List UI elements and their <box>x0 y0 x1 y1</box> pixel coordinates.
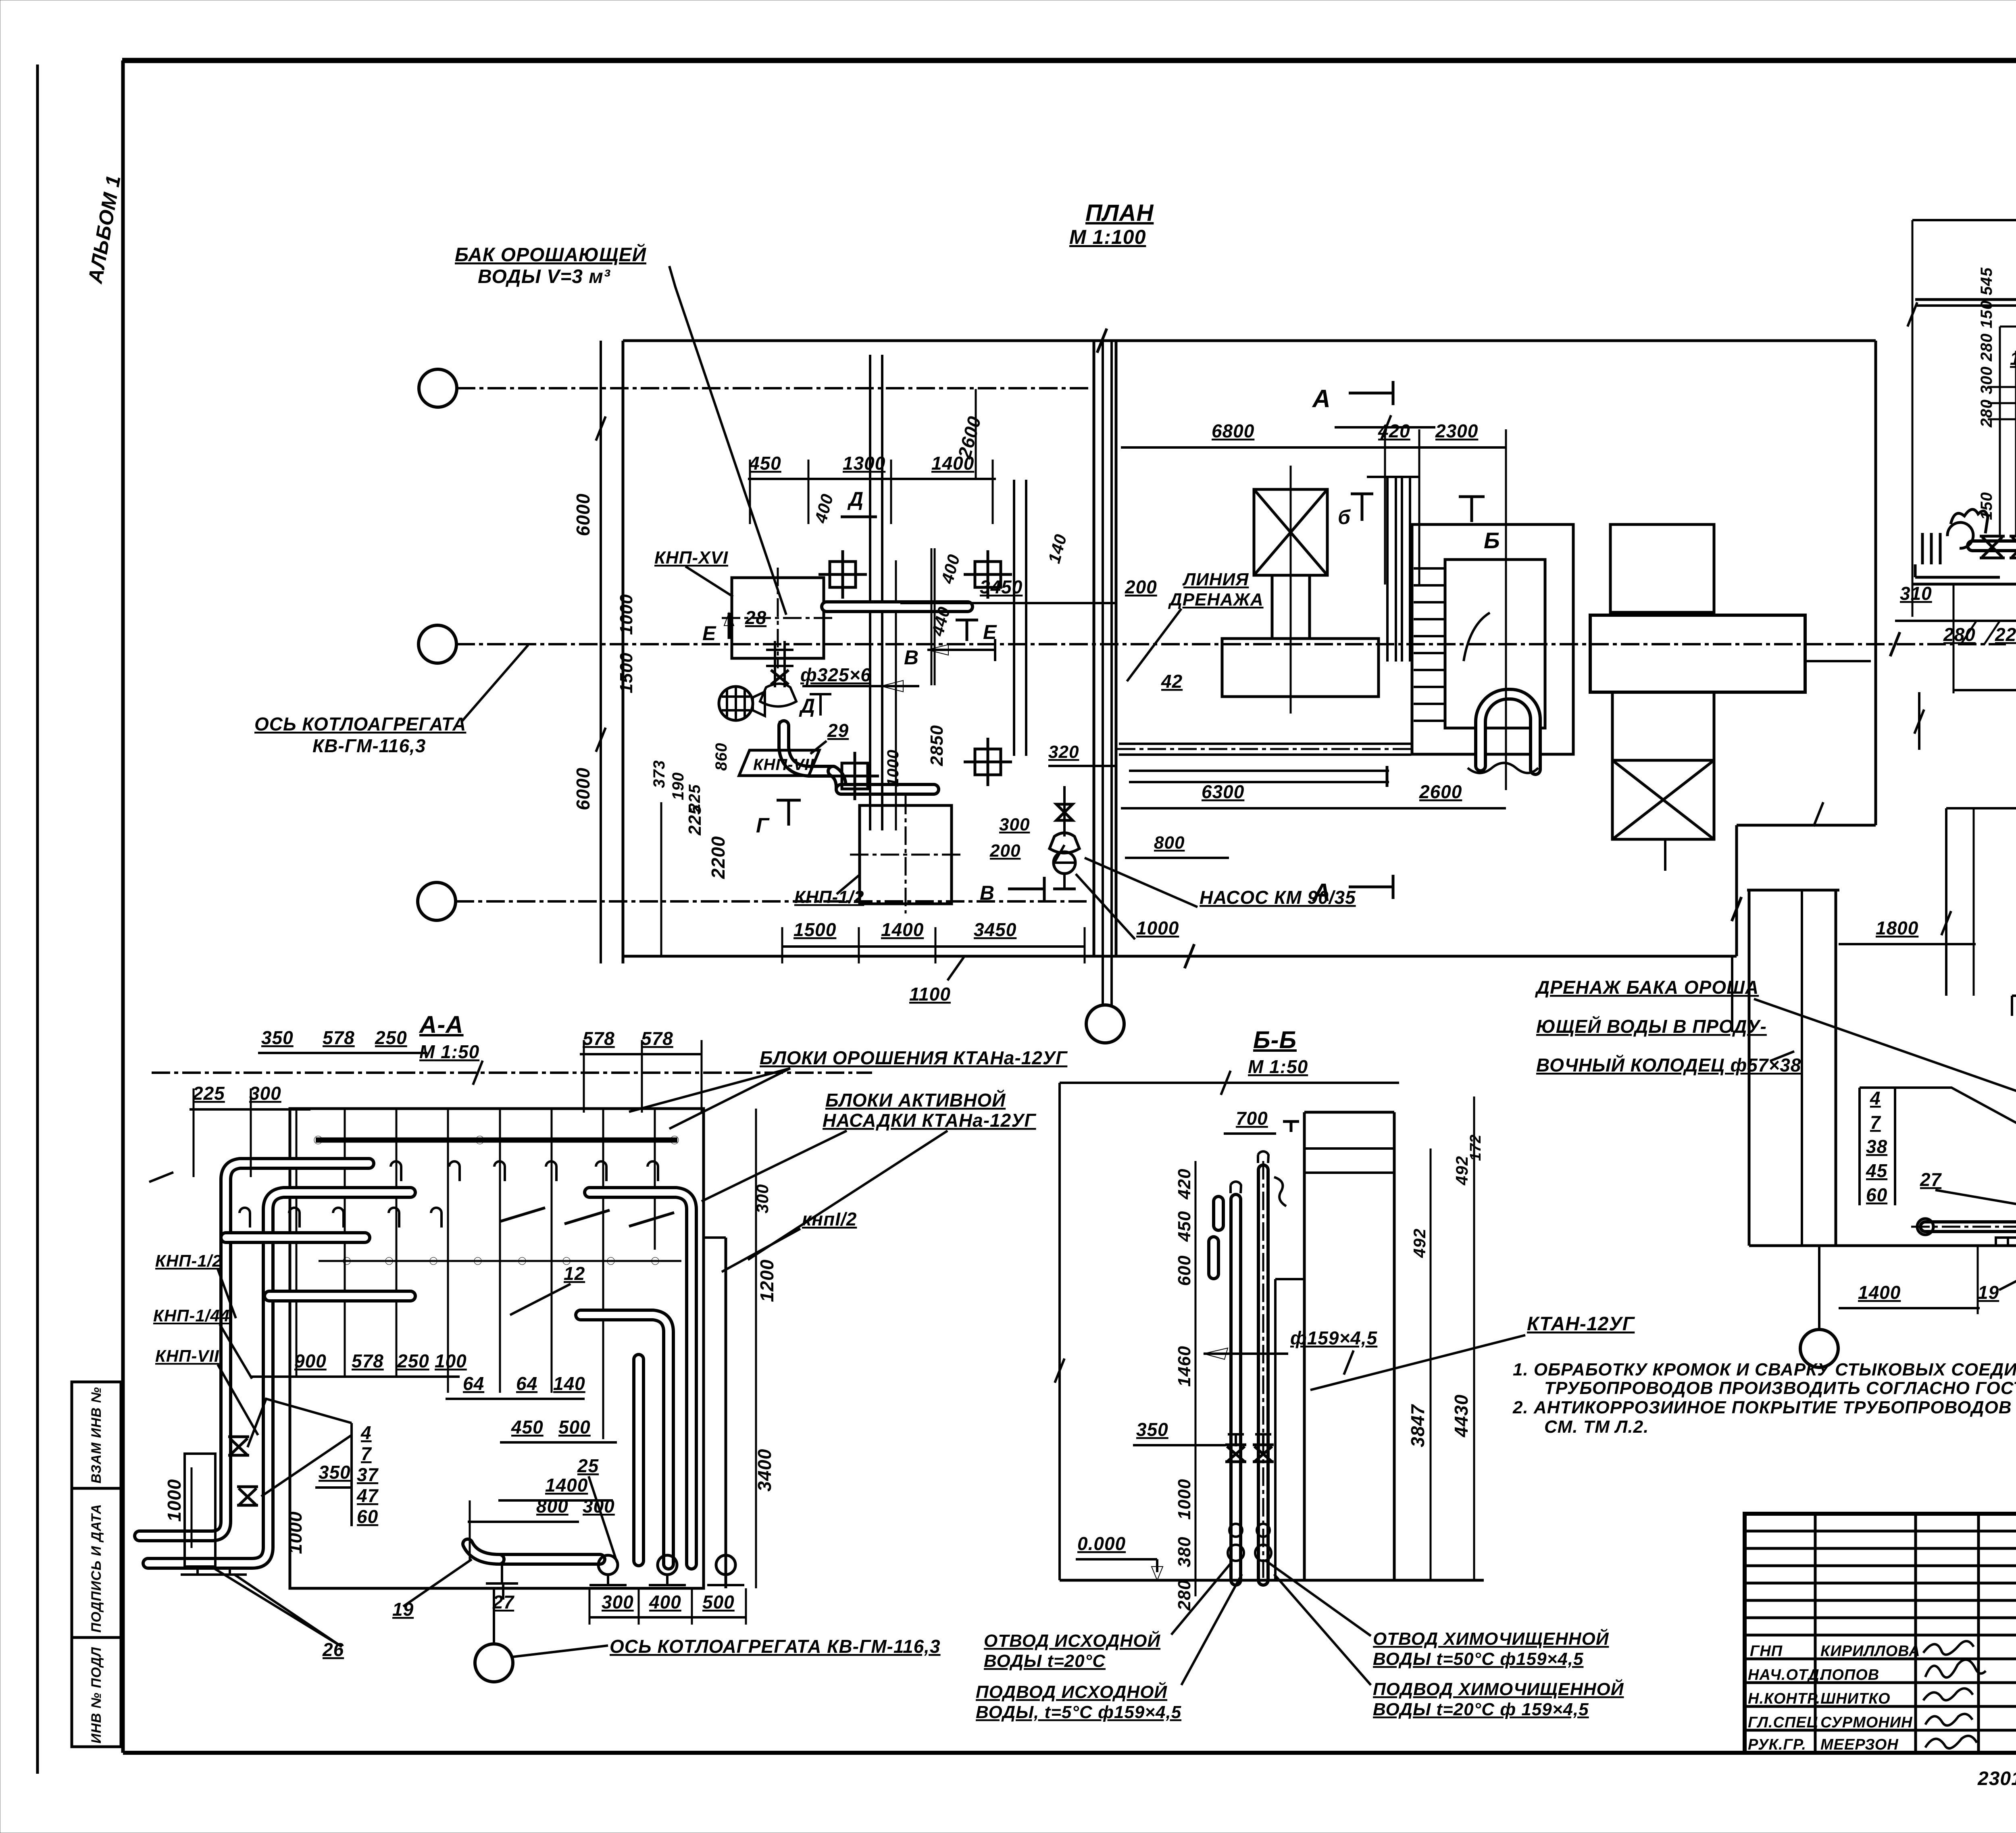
B-B pipe riser left <box>1229 1199 1242 1580</box>
svg-text:КНП-1/2: КНП-1/2 <box>155 1251 222 1270</box>
svg-text:350: 350 <box>319 1462 351 1483</box>
svg-text:ВОДЫ V=3 м³: ВОДЫ V=3 м³ <box>478 266 611 287</box>
svg-text:1200: 1200 <box>756 1259 777 1302</box>
plan KNP-1/2 tank <box>860 805 952 904</box>
pipes from wall to KTAN <box>1119 743 1411 745</box>
support under pipe <box>2007 1238 2009 1246</box>
frame top <box>122 58 2016 63</box>
svg-text:6300: 6300 <box>1202 781 1244 802</box>
axis circle D (bottom) <box>1086 1005 1124 1043</box>
A-A header capsule 4 <box>269 1290 410 1302</box>
left dim chain rotated labels <box>1195 1161 1197 1596</box>
B-B floor line <box>1060 1579 1484 1582</box>
axis circle C <box>418 882 456 920</box>
svg-text:ф159×4,5: ф159×4,5 <box>1290 1327 1378 1348</box>
plan outline <box>623 339 1876 342</box>
svg-text:578: 578 <box>641 1028 673 1049</box>
svg-text:ОТВОД ХИМОЧИЩЕННОЙ: ОТВОД ХИМОЧИЩЕННОЙ <box>1373 1628 1609 1649</box>
svg-text:492: 492 <box>1410 1228 1429 1258</box>
A-A pipe riser 1 <box>140 1163 369 1536</box>
squiggle connector right <box>1274 1177 1286 1206</box>
svg-text:1460: 1460 <box>1175 1346 1194 1387</box>
svg-text:172: 172 <box>1467 1134 1484 1161</box>
svg-text:ГЛ.СПЕЦ: ГЛ.СПЕЦ <box>1748 1714 1818 1731</box>
plan boiler drum <box>1590 615 1805 692</box>
svg-text:60: 60 <box>1866 1184 1887 1205</box>
svg-text:280: 280 <box>1175 1580 1194 1611</box>
svg-text:КНП-VII: КНП-VII <box>155 1346 219 1365</box>
left support rect <box>185 1454 215 1567</box>
svg-text:КНП-XVI: КНП-XVI <box>654 548 728 568</box>
svg-text:320: 320 <box>1048 742 1079 762</box>
svg-text:12: 12 <box>564 1263 585 1284</box>
svg-text:300: 300 <box>249 1083 281 1104</box>
svg-text:23015-01: 23015-01 <box>1977 1768 2016 1789</box>
svg-text:1. ОБРАБОТКУ КРОМОК И СВАРК: 1. ОБРАБОТКУ КРОМОК И СВАРКУ СТЫКОВЫХ СО… <box>1513 1359 2016 1379</box>
svg-text:60: 60 <box>357 1506 378 1527</box>
slanted ties <box>500 1208 674 1226</box>
svg-text:300: 300 <box>602 1592 634 1612</box>
A-A header bar <box>316 1138 677 1143</box>
svg-text:1000: 1000 <box>285 1511 306 1554</box>
svg-text:150: 150 <box>1978 492 1995 520</box>
horizontal pipe capsule <box>833 771 841 789</box>
A-A pipe riser 2 <box>148 1192 410 1563</box>
svg-text:25: 25 <box>577 1455 599 1476</box>
V-V floor line <box>1749 1244 2016 1247</box>
svg-text:МЕЕРЗОН: МЕЕРЗОН <box>1820 1736 1899 1753</box>
V-V wall top <box>1747 889 1839 892</box>
svg-text:19: 19 <box>1978 1282 1999 1303</box>
svg-text:1000: 1000 <box>164 1479 185 1522</box>
S hose in KTAN <box>1481 694 1535 770</box>
svg-text:БЛОКИ АКТИВНОЙ: БЛОКИ АКТИВНОЙ <box>825 1090 1006 1111</box>
svg-text:А: А <box>1312 385 1331 413</box>
left vertical <box>1058 1083 1061 1580</box>
svg-text:ВОДЫ, t=5°C ф159×4,5: ВОДЫ, t=5°C ф159×4,5 <box>976 1702 1181 1722</box>
svg-text:600: 600 <box>1175 1255 1194 1286</box>
svg-text:4: 4 <box>360 1422 372 1443</box>
frame bottom <box>123 1751 2016 1755</box>
svg-text:2200: 2200 <box>708 836 729 879</box>
svg-text:В: В <box>980 882 995 904</box>
svg-text:А: А <box>1312 879 1331 907</box>
svg-text:860: 860 <box>712 743 730 771</box>
svg-text:ДРЕНАЖА: ДРЕНАЖА <box>1168 590 1264 610</box>
svg-text:500: 500 <box>558 1417 591 1438</box>
svg-text:ИНВ № ПОДЛ: ИНВ № ПОДЛ <box>89 1647 104 1744</box>
thin verticals grid <box>296 1109 655 1439</box>
svg-text:1500: 1500 <box>616 652 636 693</box>
svg-text:ПОДПИСЬ И ДАТА: ПОДПИСЬ И ДАТА <box>89 1504 104 1633</box>
signatures squiggles <box>1923 1641 1986 1748</box>
svg-text:3450: 3450 <box>980 576 1023 597</box>
svg-text:350: 350 <box>261 1027 294 1048</box>
svg-text:В: В <box>904 646 919 669</box>
svg-text:578: 578 <box>323 1027 355 1048</box>
svg-text:140: 140 <box>553 1373 585 1394</box>
svg-text:420: 420 <box>1175 1169 1194 1200</box>
svg-text:350: 350 <box>1136 1419 1168 1440</box>
A-A header capsule 3 <box>226 1231 365 1244</box>
bottom long pipe with elbow <box>500 1553 600 1566</box>
svg-text:ПОПОВ: ПОПОВ <box>1820 1667 1879 1683</box>
svg-text:373: 373 <box>650 760 668 788</box>
svg-text:КТАН-12УГ: КТАН-12УГ <box>1527 1313 1635 1335</box>
svg-text:7: 7 <box>1870 1112 1881 1133</box>
svg-text:225: 225 <box>1995 624 2016 645</box>
svg-text:КВ-ГМ-116,3: КВ-ГМ-116,3 <box>312 735 426 756</box>
svg-text:3400: 3400 <box>754 1449 775 1492</box>
svg-text:М 1:50: М 1:50 <box>419 1041 479 1062</box>
svg-text:ЮЩЕЙ ВОДЫ В ПРОДУ-: ЮЩЕЙ ВОДЫ В ПРОДУ- <box>1536 1016 1767 1037</box>
svg-text:М 1:50: М 1:50 <box>1248 1056 1308 1077</box>
small right pipe <box>632 1359 645 1561</box>
svg-text:2. АНТИКОРРОЗИИНОЕ ПОКРЫТИЕ: 2. АНТИКОРРОЗИИНОЕ ПОКРЫТИЕ ТРУБОПРОВОДО… <box>1512 1398 2012 1417</box>
side capsule <box>1207 1242 1220 1274</box>
svg-text:ОСЬ КОТЛОАГРЕГАТА: ОСЬ КОТЛОАГРЕГАТА <box>254 714 466 734</box>
svg-text:250: 250 <box>397 1350 429 1371</box>
outer left trim line <box>36 64 39 1774</box>
svg-text:4: 4 <box>1870 1088 1881 1109</box>
svg-text:1000: 1000 <box>1136 918 1179 938</box>
svg-text:800: 800 <box>536 1496 569 1517</box>
axis circle A <box>419 369 457 407</box>
V-V pump suction pipe <box>1925 1220 2016 1233</box>
svg-text:Г: Г <box>756 814 770 837</box>
pump left <box>1915 510 2000 577</box>
svg-text:КНП-1/2: КНП-1/2 <box>794 887 864 907</box>
svg-text:45: 45 <box>1866 1160 1888 1181</box>
svg-text:НАСАДКИ КТАНа-12УГ: НАСАДКИ КТАНа-12УГ <box>823 1110 1036 1131</box>
dots row <box>343 1257 350 1265</box>
filter (round strainer) <box>719 687 753 720</box>
svg-text:42: 42 <box>1161 671 1183 692</box>
svg-text:А-А: А-А <box>419 1011 464 1038</box>
svg-text:0.000: 0.000 <box>1077 1533 1126 1554</box>
svg-text:ЛИНИЯ: ЛИНИЯ <box>1182 570 1249 589</box>
svg-text:ВЗАМ ИНВ №: ВЗАМ ИНВ № <box>89 1387 104 1483</box>
svg-text:280 300 280 150 545: 280 300 280 150 545 <box>1978 267 1995 428</box>
svg-text:47: 47 <box>356 1485 379 1506</box>
svg-text:578: 578 <box>583 1028 615 1049</box>
axis line A <box>457 387 1089 389</box>
leader <box>462 645 528 722</box>
svg-text:200: 200 <box>989 841 1020 861</box>
svg-text:100: 100 <box>435 1350 467 1371</box>
svg-text:2600: 2600 <box>954 414 985 461</box>
svg-text:НАЧ.ОТД.: НАЧ.ОТД. <box>1748 1667 1824 1683</box>
svg-text:ГНП: ГНП <box>1750 1643 1783 1660</box>
elbow pipe to KNP-VII <box>784 726 833 771</box>
svg-text:2850: 2850 <box>927 725 947 766</box>
top axis dashdot <box>152 1072 872 1074</box>
svg-text:225: 225 <box>192 1083 225 1104</box>
V-V axis circle left <box>1800 1329 1838 1367</box>
svg-text:3847: 3847 <box>1407 1404 1428 1447</box>
handle icon top <box>1283 1121 1299 1132</box>
svg-text:1000: 1000 <box>616 594 636 635</box>
bottom flange circles <box>598 1555 618 1575</box>
svg-text:450: 450 <box>749 453 781 474</box>
svg-text:ПОДВОД ИСХОДНОЙ: ПОДВОД ИСХОДНОЙ <box>976 1681 1167 1702</box>
svg-text:400: 400 <box>937 552 964 586</box>
svg-text:НАСОС КМ 90/35: НАСОС КМ 90/35 <box>1200 887 1356 908</box>
svg-text:1000: 1000 <box>1175 1479 1194 1520</box>
svg-text:кнпI/2: кнпI/2 <box>802 1209 857 1230</box>
svg-text:380: 380 <box>1175 1537 1194 1567</box>
svg-text:ТРУБОПРОВОДОВ ПРОИЗВОДИТЬ СО: ТРУБОПРОВОДОВ ПРОИЗВОДИТЬ СОГЛАСНО ГОСТ … <box>1544 1378 2016 1398</box>
bottom flanges <box>1228 1545 1244 1561</box>
svg-text:64: 64 <box>516 1373 537 1394</box>
svg-text:6800: 6800 <box>1212 420 1254 441</box>
svg-text:ОТВОД ИСХОДНОЙ: ОТВОД ИСХОДНОЙ <box>984 1630 1160 1651</box>
valve above pump <box>1056 804 1073 820</box>
svg-text:250: 250 <box>375 1027 407 1048</box>
top line with drops <box>1946 807 2016 809</box>
parts stack A-A <box>356 1422 379 1527</box>
A-A right riser <box>589 1192 691 1564</box>
svg-text:СУРМОНИН: СУРМОНИН <box>1820 1714 1913 1731</box>
svg-text:б: б <box>1338 506 1351 528</box>
B-B valve left <box>1225 1445 1246 1462</box>
svg-text:3450: 3450 <box>974 919 1016 940</box>
svg-text:38: 38 <box>1866 1136 1887 1157</box>
svg-text:ВОЧНЫЙ КОЛОДЕЦ ф57×38: ВОЧНЫЙ КОЛОДЕЦ ф57×38 <box>1536 1055 1801 1076</box>
svg-text:400: 400 <box>811 492 837 526</box>
dim line 6000/6000 <box>600 341 602 963</box>
vertical pipe pair mid plan <box>869 355 871 830</box>
svg-text:280: 280 <box>1943 624 1976 645</box>
svg-text:2600: 2600 <box>1419 781 1462 802</box>
G-G valve 1 <box>1980 536 2005 558</box>
svg-text:1800: 1800 <box>1876 918 1918 938</box>
svg-text:27: 27 <box>1920 1169 1942 1190</box>
svg-text:Н.КОНТР.: Н.КОНТР. <box>1748 1690 1820 1707</box>
svg-text:ДРЕНАЖ БАКА ОРОША: ДРЕНАЖ БАКА ОРОША <box>1535 977 1759 998</box>
svg-text:300: 300 <box>999 815 1030 834</box>
svg-text:6000: 6000 <box>573 768 594 810</box>
axis circle B <box>419 625 456 663</box>
svg-text:300: 300 <box>583 1496 615 1517</box>
svg-text:ВОДЫ t=20°C ф 159×4,5: ВОДЫ t=20°C ф 159×4,5 <box>1373 1700 1589 1719</box>
svg-text:Е: Е <box>702 622 716 645</box>
construction fan lines <box>1988 327 2016 560</box>
svg-text:Д: Д <box>799 695 815 717</box>
svg-text:КНП-VII: КНП-VII <box>753 756 814 774</box>
svg-text:1300: 1300 <box>843 453 885 474</box>
svg-text:ПЛАН: ПЛАН <box>1085 200 1154 226</box>
svg-text:150: 150 <box>2010 348 2016 369</box>
valve on tank outlet <box>771 670 789 685</box>
svg-text:БЛОКИ ОРОШЕНИЯ КТАНа-12УГ: БЛОКИ ОРОШЕНИЯ КТАНа-12УГ <box>760 1047 1068 1068</box>
svg-text:КНП-1/44: КНП-1/44 <box>153 1306 230 1325</box>
tank outlet piping <box>774 641 776 687</box>
wall squares <box>818 550 1012 800</box>
svg-text:ШНИТКО: ШНИТКО <box>1820 1690 1891 1707</box>
svg-text:ПОДВОД ХИМОЧИЩЕННОЙ: ПОДВОД ХИМОЧИЩЕННОЙ <box>1373 1679 1624 1699</box>
svg-text:900: 900 <box>294 1350 327 1371</box>
tower structure <box>1303 1112 1306 1580</box>
svg-text:225: 225 <box>686 784 704 813</box>
frame left <box>121 60 125 1753</box>
svg-text:37: 37 <box>357 1464 379 1485</box>
svg-text:800: 800 <box>1154 833 1185 853</box>
right dim lines <box>1430 1148 1432 1580</box>
top dim line <box>1912 219 2016 221</box>
svg-text:КИРИЛЛОВА: КИРИЛЛОВА <box>1820 1643 1920 1660</box>
svg-text:310: 310 <box>1900 583 1932 604</box>
svg-text:Б: Б <box>1484 528 1500 553</box>
G-G ceiling beam <box>1915 298 2016 301</box>
G-G valve 2 <box>2010 536 2016 558</box>
svg-text:450: 450 <box>511 1417 544 1438</box>
ceiling line + vent pipe <box>2012 995 2016 997</box>
G-G main pipe 1 <box>1972 351 2016 546</box>
svg-text:ВОДЫ t=20°C: ВОДЫ t=20°C <box>984 1651 1106 1671</box>
svg-text:200: 200 <box>1125 576 1157 597</box>
svg-text:1400: 1400 <box>545 1475 588 1496</box>
svg-text:Д: Д <box>847 488 864 510</box>
svg-text:6000: 6000 <box>573 493 594 536</box>
svg-text:64: 64 <box>463 1373 484 1394</box>
A-A block outline <box>290 1109 704 1588</box>
plan chimney X-box <box>1254 489 1327 575</box>
A-A axis circle <box>475 1644 513 1682</box>
connection lines from plan down to V-V area <box>1664 839 1666 871</box>
supports <box>181 1565 744 1585</box>
svg-text:БАК ОРОШАЮЩЕЙ: БАК ОРОШАЮЩЕЙ <box>455 243 647 266</box>
parts stacks <box>1866 1088 1888 1205</box>
tee capsule at tank level <box>827 600 968 613</box>
KNP-VII parallelogram label <box>739 750 819 776</box>
G-G floor line <box>1912 583 2016 586</box>
pump in plan <box>1050 833 1079 853</box>
svg-text:578: 578 <box>352 1350 384 1371</box>
svg-text:1400: 1400 <box>881 919 924 940</box>
plan KTAN block <box>1412 524 1573 754</box>
svg-text:РУК.ГР.: РУК.ГР. <box>1748 1736 1806 1753</box>
wall pipes vertical <box>1093 341 1095 956</box>
top line <box>1060 1082 1399 1084</box>
svg-text:29: 29 <box>827 720 849 741</box>
A-A valve 2 <box>237 1487 258 1505</box>
A-A J pipe <box>581 1315 669 1564</box>
svg-text:700: 700 <box>1236 1108 1268 1129</box>
svg-text:1500: 1500 <box>793 919 836 940</box>
svg-text:СМ. ТМ Л.2.: СМ. ТМ Л.2. <box>1544 1417 1649 1437</box>
axis line C <box>456 900 1087 903</box>
svg-text:ОСЬ КОТЛОАГРЕГАТА КВ-ГМ-11: ОСЬ КОТЛОАГРЕГАТА КВ-ГМ-116,3 <box>610 1636 941 1657</box>
svg-text:1400: 1400 <box>1858 1282 1901 1303</box>
svg-text:450: 450 <box>1175 1211 1194 1242</box>
svg-text:АЛЬБОМ 1: АЛЬБОМ 1 <box>83 173 125 286</box>
B-B pipe riser right <box>1257 1170 1270 1580</box>
hook arrows top rows <box>240 1161 658 1228</box>
svg-text:28: 28 <box>745 607 766 628</box>
A-A valve 1 <box>228 1437 249 1455</box>
svg-text:2300: 2300 <box>1435 420 1478 441</box>
svg-text:4430: 4430 <box>1451 1394 1472 1438</box>
svg-text:ВОДЫ t=50°C ф159×4,5: ВОДЫ t=50°C ф159×4,5 <box>1373 1649 1583 1669</box>
KNP-XVI tank <box>732 578 824 658</box>
pipe top caps <box>1258 1151 1268 1163</box>
tank leader <box>669 266 786 615</box>
tall pipes near section b <box>1386 477 1389 662</box>
svg-text:7: 7 <box>361 1443 372 1464</box>
svg-text:140: 140 <box>1044 532 1070 566</box>
svg-text:500: 500 <box>702 1592 735 1612</box>
svg-text:1000: 1000 <box>884 749 902 787</box>
svg-text:1100: 1100 <box>909 984 951 1005</box>
svg-text:ф325×6: ф325×6 <box>800 664 871 685</box>
svg-text:190: 190 <box>669 772 687 800</box>
svg-text:400: 400 <box>649 1592 681 1612</box>
svg-text:М 1:100: М 1:100 <box>1069 226 1146 248</box>
axis line B <box>456 643 2006 645</box>
B-B valve right <box>1253 1445 1274 1462</box>
svg-text:Б-Б: Б-Б <box>1253 1026 1297 1053</box>
